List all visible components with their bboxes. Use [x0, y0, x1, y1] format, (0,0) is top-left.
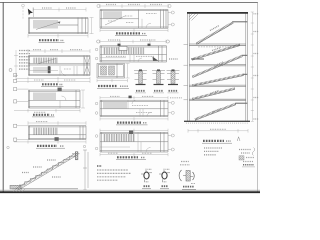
plan P2 bottom dims [16, 77, 90, 83]
plan M3 inner smudges [132, 105, 148, 107]
plan M2 left axis circles [95, 48, 98, 51]
plan P4 top dim [28, 121, 86, 125]
plan P2 left axis circle [9, 69, 12, 72]
plan P2 inner text smudges [40, 61, 48, 63]
plan P4 dark block bottom edge [55, 137, 59, 141]
plan P1 top dimension line [33, 8, 86, 12]
section S floor slab level4 [189, 85, 246, 86]
plan M2 tick blocks above wall [118, 44, 121, 46]
small plan SP title [98, 85, 117, 87]
plan P2 top dim [28, 49, 90, 53]
plan M1 door arc [146, 23, 151, 28]
detail D1 baluster [134, 69, 147, 84]
plan M4 title [117, 156, 138, 158]
plan P1 mid wall line [58, 24, 78, 26]
plan P3 bottom dim [14, 109, 80, 112]
stair detail ground block left [10, 185, 21, 189]
plan M4 top dim [100, 129, 168, 132]
section S left wall [188, 12, 248, 121]
section S flight F4 [193, 74, 248, 86]
plan P3 walls [29, 90, 81, 108]
section S flight F6 [195, 103, 247, 120]
notes block [97, 165, 102, 167]
border right line [257, 2, 259, 192]
section S bottom dim [188, 129, 248, 133]
plan P1 dim text [42, 7, 52, 9]
stair detail top landing [72, 153, 80, 155]
border bottom double line [0, 189, 260, 191]
plan P2 lower room lines [29, 66, 78, 76]
plan P2 left axis squares [14, 74, 17, 77]
border top line [0, 1, 258, 3]
plan M2 right text [169, 58, 178, 60]
plan P1 stair treads [33, 20, 58, 29]
plan M3 top dim [100, 96, 168, 99]
stair section detail ground line [12, 188, 78, 190]
plan P2 right end hatch [84, 57, 89, 74]
section S flight F3 [193, 55, 248, 77]
detail D2 label [154, 90, 163, 92]
plan P1 bottom dim [28, 34, 88, 38]
plan M4 partitions [100, 132, 151, 152]
plan P4 title [37, 145, 57, 147]
plan M1 top dim [100, 4, 168, 8]
plan M1 stair treads [103, 11, 122, 18]
plan M3 left axis circles [95, 102, 98, 105]
plan P3 right dim [81, 90, 85, 108]
small plan SP walls [97, 64, 125, 79]
plan P1 up arrow [36, 22, 60, 30]
plan M3 partitions and arcs [128, 100, 151, 116]
plan M3 stair treads [103, 102, 127, 108]
plan P2 mid wall chunk [48, 66, 51, 73]
detail D6 label [183, 186, 194, 188]
plan M3 top axis block [129, 96, 132, 99]
plan M2 lower partitions [100, 55, 142, 62]
plan M4 dark block top edge [129, 131, 133, 134]
section S title [203, 140, 224, 142]
stair detail stringer lines [16, 154, 75, 189]
plan M4 left axis circles [95, 135, 98, 138]
detail D5 handrail section [159, 169, 170, 182]
plan M4 dense stair treads [103, 134, 135, 141]
section S notes [204, 147, 222, 149]
section S ground line [184, 120, 250, 122]
detail D4 handrail section [141, 169, 152, 182]
stair detail top post [75, 152, 78, 160]
plan P2 stair treads lower [33, 67, 51, 73]
plan P4 left axis squares [14, 124, 17, 127]
section S flight F2 [191, 45, 240, 61]
plan P2 left dim texts [19, 51, 30, 70]
detail D5 label [162, 185, 168, 187]
plan M1 inner smudges [126, 22, 134, 24]
plan M3 walls [100, 100, 168, 116]
stair detail axis ticks [7, 146, 9, 148]
section S floor slab level2 [189, 44, 246, 45]
section S right dim line [251, 12, 254, 121]
section S top-left corner hatch [190, 13, 199, 21]
plan M2 stair treads [103, 48, 145, 55]
plan M1 stair arrow [105, 16, 126, 26]
plan P4 stair treads [33, 128, 58, 135]
grid bubble with dashed axis above plan P1 [22, 4, 25, 19]
detail D8 small section [239, 156, 244, 160]
section S roof slab [187, 12, 248, 14]
plan M1 title [116, 32, 140, 34]
plan P2 stair arrow [37, 59, 56, 65]
plan P3 lower partition [59, 101, 61, 109]
plan M2 top dim with bubbles [100, 40, 166, 44]
plan P3 left axis squares [14, 88, 17, 91]
detail D6 text above [181, 161, 189, 163]
detail D2 baluster [152, 69, 165, 84]
plan P3 title [33, 114, 50, 116]
detail D3 label [169, 90, 178, 92]
plan M2 legend box [119, 46, 127, 50]
small plan SP right dim [126, 64, 130, 79]
stair detail slab hatch [17, 154, 76, 189]
small plan SP hatched cores [101, 66, 107, 75]
border left line [2, 2, 4, 192]
detail D1 label [136, 90, 145, 92]
plan P1 right dim [90, 18, 94, 34]
plan P3 dark hatch block on top edge [58, 88, 62, 92]
section S floor slab level3 [189, 65, 246, 66]
section S level texts [254, 14, 260, 119]
detail D8 texts [239, 149, 251, 151]
detail D8 label [243, 164, 254, 166]
small plan SP bottom dim [97, 79, 128, 82]
stair detail ground hatch left [13, 189, 25, 192]
plan P2 walls [29, 56, 91, 76]
plan M2 walls [100, 46, 167, 62]
section S ground hatch [186, 122, 248, 124]
plan M4 right axis circles [171, 134, 174, 137]
plan P1 title [39, 39, 59, 41]
plan P1 walls [29, 18, 89, 34]
plan M3 title [117, 121, 141, 123]
plan M3 right axis circles [171, 101, 174, 104]
section S tick row under level2 [198, 46, 234, 48]
detail D4 label [144, 185, 150, 187]
stair detail labels [33, 166, 42, 168]
plan P3 door arc [62, 96, 67, 101]
section S flight F1 [197, 22, 248, 45]
section S floor slab level5 [189, 99, 246, 100]
section S left wall ticks [184, 45, 188, 100]
section S flight F5 [193, 88, 236, 100]
plan P2 stair treads upper [33, 58, 58, 64]
plan P2 title [42, 83, 58, 85]
plan P4 bottom dim [14, 140, 86, 143]
plan M4 bottom dim [100, 153, 168, 156]
stair detail steps zigzag [19, 156, 75, 185]
cursor arrow mark [28, 9, 33, 16]
plan M1 right axis circles [171, 11, 174, 14]
plan M1 bottom dim [100, 29, 168, 32]
plan P4 walls [29, 126, 87, 140]
plan M1 walls [100, 10, 168, 29]
stair detail right dim [83, 150, 88, 190]
detail D3 baluster [167, 69, 180, 84]
plan M3 bottom dim [100, 117, 168, 120]
detail D6 handrail attachment [179, 170, 194, 181]
plan P1 left extension line [33, 8, 35, 18]
detail D8 bracket [252, 148, 255, 156]
plan M2 mid smudges [106, 55, 126, 57]
plan M4 walls [100, 132, 168, 152]
plan M2 section cut arrow [153, 57, 159, 61]
plan P2 left dimension stack [14, 50, 18, 80]
plan P3 stair treads [33, 93, 56, 101]
